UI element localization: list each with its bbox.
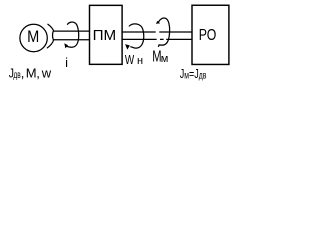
rotation arrow wn bbox=[129, 24, 143, 48]
svg-text:ПМ: ПМ bbox=[93, 27, 117, 44]
svg-text:M: M bbox=[27, 28, 39, 46]
wire shaft right bottom bbox=[122, 38, 192, 40]
gearbox box PM bbox=[90, 5, 123, 64]
rotation arrow Mm bbox=[158, 18, 169, 46]
coupling flare top bbox=[48, 24, 54, 31]
svg-text:Jм=Jдв: Jм=Jдв bbox=[180, 68, 207, 82]
arrowhead of rotation arrow Mm bbox=[156, 21, 160, 24]
shaft gap left of Mm arrow top bbox=[156, 31, 160, 34]
svg-text:W: W bbox=[125, 54, 135, 67]
label Jdv, M, w bottom left bbox=[9, 65, 52, 80]
svg-text:i: i bbox=[65, 55, 68, 70]
wire shaft left bottom bbox=[54, 39, 89, 41]
motor M1 circle bbox=[20, 24, 47, 51]
svg-text:,: , bbox=[36, 65, 40, 80]
shaft gap left of Mm arrow bottom bbox=[157, 38, 160, 41]
svg-text:м: м bbox=[161, 53, 169, 65]
coupling flare bottom bbox=[47, 40, 53, 48]
svg-text:,: , bbox=[21, 65, 25, 80]
svg-text:w: w bbox=[41, 66, 52, 81]
svg-text:н: н bbox=[137, 55, 143, 67]
working machine box RO bbox=[192, 5, 229, 64]
svg-text:M: M bbox=[26, 65, 37, 80]
svg-text:РО: РО bbox=[199, 26, 217, 44]
rotation arrow w (motor shaft) bbox=[67, 22, 79, 47]
wire shaft right top bbox=[122, 31, 192, 33]
arrowhead of rotation arrow w bbox=[64, 43, 68, 48]
wire shaft left top bbox=[54, 30, 89, 32]
arrowhead of rotation arrow wn bbox=[125, 44, 130, 50]
coupling brace middle bbox=[53, 31, 54, 40]
svg-text:дв: дв bbox=[13, 68, 21, 80]
